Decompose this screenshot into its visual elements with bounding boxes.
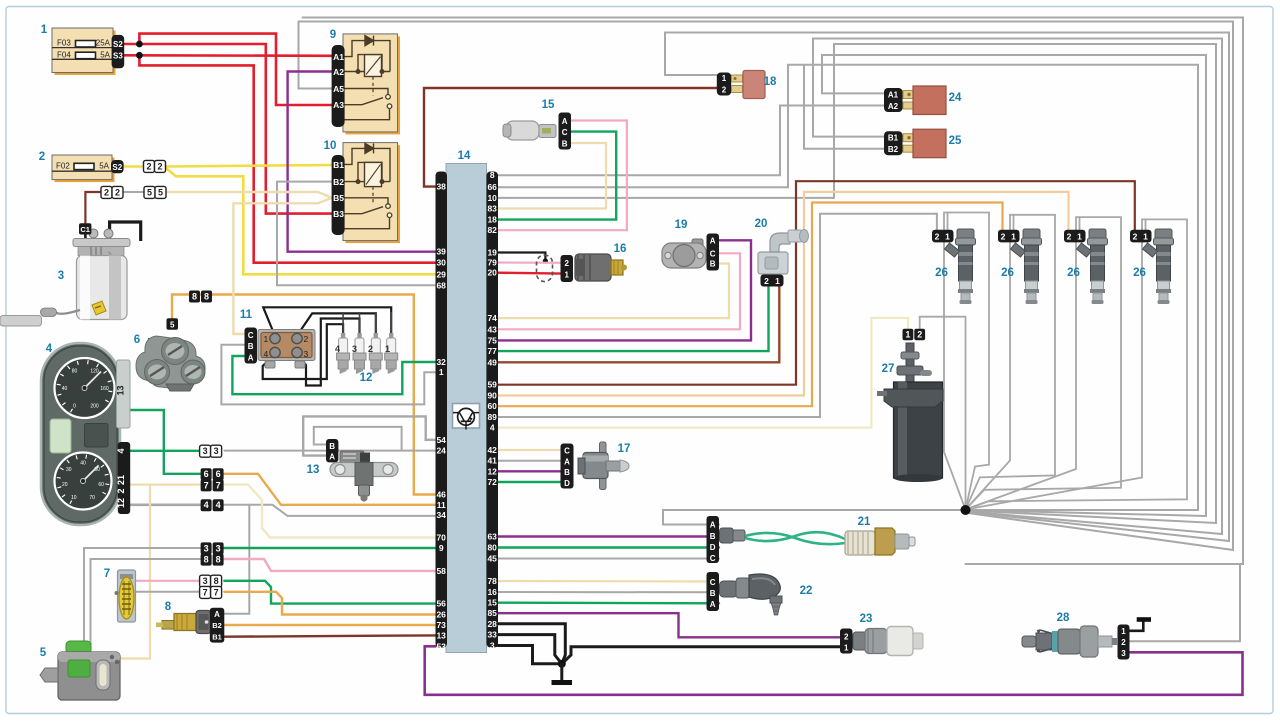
svg-text:10: 10 (324, 140, 337, 152)
wire cream ignition module pin C to relay 10 pin B5 (233, 198, 332, 334)
ignition module 11 body (258, 330, 315, 369)
svg-text:26: 26 (1067, 267, 1080, 279)
relay 9 body (343, 34, 400, 134)
oxygen sensor 21 body (845, 528, 915, 555)
svg-text:73: 73 (436, 620, 446, 630)
wire brown connector 2-2 to fuel pump C1 (85, 192, 101, 223)
wire gray between 2-2 and 5-5 connectors (124, 191, 145, 193)
svg-text:85: 85 (487, 608, 497, 618)
svg-text:8: 8 (192, 292, 197, 302)
svg-text:19: 19 (675, 219, 688, 231)
wire pink sensor 15 pin A to ECU pin 82 (497, 121, 627, 231)
svg-text:3: 3 (203, 446, 208, 456)
wire black ECU pin 3 to ground node (497, 646, 562, 664)
svg-text:60: 60 (487, 401, 497, 411)
wire black ECU pin 19 shield drain (497, 253, 546, 261)
svg-text:42: 42 (487, 445, 497, 455)
spark plug 3 (40, 71, 1174, 701)
wire gray injector 4 pin 1 stub (1145, 219, 1147, 231)
svg-text:2: 2 (844, 633, 849, 642)
cluster LCD green (50, 419, 71, 453)
wire gray relay 9 pin A5 loop to shield node (299, 22, 1234, 551)
svg-text:11: 11 (437, 500, 446, 510)
svg-text:3: 3 (352, 344, 357, 354)
knock sensor 19 body (662, 239, 706, 268)
svg-text:80: 80 (72, 369, 78, 375)
fuse box 2 details (52, 162, 112, 172)
svg-text:3: 3 (216, 543, 221, 553)
wire orange sensor 6 pin 5 via connector 8-8 to ECU pin 46 (172, 295, 436, 495)
svg-text:A: A (214, 610, 220, 619)
svg-text:2: 2 (39, 151, 45, 163)
svg-text:30: 30 (66, 467, 72, 473)
svg-text:5: 5 (147, 187, 152, 197)
ground node dot (558, 660, 566, 668)
svg-text:32: 32 (436, 357, 446, 367)
wire gray immobilizer 5 to connector 8-8 lower (91, 559, 201, 648)
svg-text:2: 2 (1067, 232, 1072, 242)
svg-text:27: 27 (882, 363, 895, 375)
svg-text:0: 0 (73, 403, 76, 409)
wire purple ECU pin 85 to connector 23 pin 2 (497, 613, 841, 637)
svg-text:79: 79 (487, 258, 497, 268)
svg-text:A: A (248, 354, 254, 363)
svg-text:8: 8 (165, 601, 172, 613)
svg-text:A3: A3 (333, 100, 344, 110)
wire green ignition module pin A to ECU pin 32 (232, 356, 435, 394)
svg-text:6: 6 (204, 469, 209, 479)
injector 26 #2 (998, 229, 1042, 304)
wire green ECU pin 15 to MAP sensor pin A (497, 602, 720, 605)
svg-text:7: 7 (216, 480, 221, 490)
sensor 16 body (575, 254, 627, 281)
svg-text:24: 24 (949, 92, 962, 104)
svg-text:1: 1 (775, 276, 780, 286)
immobilizer unit 5 (40, 641, 120, 700)
svg-text:B2: B2 (333, 177, 344, 187)
svg-text:S2: S2 (112, 163, 122, 172)
svg-text:6: 6 (216, 469, 221, 479)
svg-text:2: 2 (935, 232, 940, 242)
wire pink diagnostic 7 to connector 3-8 (135, 580, 201, 582)
svg-text:4: 4 (216, 500, 221, 510)
fuel pump module 3 (0, 229, 130, 326)
svg-text:5A: 5A (100, 50, 110, 59)
svg-text:12: 12 (116, 498, 126, 508)
wire brown ECU pin 59 to injector 4 (497, 181, 1135, 385)
wire cream ECU pin 78 to MAP sensor pin C (497, 580, 720, 583)
svg-text:68: 68 (436, 280, 446, 290)
svg-text:30: 30 (436, 258, 446, 268)
sensor 19 connector (707, 234, 720, 271)
svg-text:F04: F04 (57, 50, 71, 59)
svg-text:C: C (710, 578, 716, 587)
svg-text:66: 66 (487, 182, 497, 192)
svg-text:80: 80 (487, 543, 497, 553)
wire pink ECU pin 79 to sensor 16 pin 2 (497, 261, 562, 263)
wire gray ECU pin 10 to shield node (834, 44, 1216, 523)
wire yellow branch to ECU pin 29 (167, 169, 436, 274)
svg-text:77: 77 (487, 346, 497, 356)
svg-text:20: 20 (487, 268, 497, 278)
canister 27 connector (903, 329, 914, 341)
oxygen sensor 21 pigtail (720, 528, 846, 544)
svg-text:A: A (562, 117, 568, 126)
svg-text:1: 1 (264, 334, 269, 344)
wire green ECU pin 80 to oxygen sensor pin D (497, 546, 720, 548)
svg-text:63: 63 (487, 532, 497, 542)
wire cream ECU pin 42 to IAC pin C (497, 449, 562, 451)
sensor 23 connector (840, 629, 853, 654)
wire peach ECU pin 90 to injector 3 (497, 192, 1069, 396)
svg-text:4: 4 (116, 448, 126, 453)
wire black ground stem (560, 664, 563, 681)
svg-text:5A: 5A (99, 162, 109, 171)
svg-text:2: 2 (1133, 232, 1138, 242)
svg-text:5: 5 (40, 647, 47, 659)
svg-text:2: 2 (764, 276, 769, 286)
wire gray shield node to oxygen sensor 21 pin A (663, 510, 966, 525)
svg-text:6: 6 (134, 334, 140, 346)
wire purple relay 9 pin A2 to ECU pin 39 (288, 72, 436, 252)
wire gray ECU pin 16 to MAP sensor pin B (497, 591, 720, 593)
svg-text:72: 72 (487, 477, 497, 487)
wire gray ECU pin 41 to IAC pin A (497, 460, 562, 462)
svg-text:59: 59 (487, 380, 497, 390)
svg-text:2: 2 (1121, 638, 1126, 647)
diagnostic connector 7 (115, 570, 136, 622)
svg-text:24: 24 (436, 446, 446, 456)
svg-text:1: 1 (1121, 627, 1126, 636)
svg-text:49: 49 (487, 357, 497, 367)
svg-text:2: 2 (115, 187, 120, 197)
purge valve 20 body (758, 230, 809, 275)
crank position sensor 13 body (330, 451, 398, 502)
spark plug numbers (335, 344, 390, 354)
wire orange ECU pin 60 to injector 2 (497, 203, 1003, 407)
ECU right pin numbers (487, 170, 497, 650)
wire green sensor 15 pin C to ECU pin 18 (497, 132, 617, 220)
wire green cluster pin 13 to connector 6-6 (130, 410, 201, 474)
ground symbol speed sensor (1137, 617, 1151, 622)
svg-text:10: 10 (71, 495, 77, 501)
wire gray module 25 pin B1 to shield node (813, 39, 1222, 535)
svg-text:56: 56 (436, 599, 446, 609)
svg-text:16: 16 (487, 587, 497, 597)
svg-text:7: 7 (104, 568, 110, 580)
throttle position sensor 6 (136, 336, 205, 391)
svg-text:1: 1 (1011, 232, 1016, 242)
fuse box 2 body (52, 155, 115, 182)
svg-text:A: A (710, 237, 716, 246)
wire black speed sensor pin 1 to ground (1129, 621, 1143, 631)
svg-text:1: 1 (385, 344, 390, 354)
svg-text:C1: C1 (80, 225, 90, 234)
svg-text:70: 70 (436, 533, 446, 543)
svg-text:A2: A2 (888, 102, 899, 111)
wire black ECU pin 28 to ground node (497, 624, 566, 664)
svg-text:19: 19 (487, 248, 497, 258)
wire HV lead terminal 2 to spark plug 2 (297, 313, 376, 336)
wire purple sensor 19 pin A to ECU pin 75 (497, 240, 752, 340)
svg-text:1: 1 (945, 232, 950, 242)
speedometer gauge (55, 358, 115, 418)
svg-text:26: 26 (935, 267, 948, 279)
spark plug 1 (40, 71, 1174, 701)
IAC valve 17 connector (561, 444, 574, 489)
wire gray top bus 1 (relay 9 area to shield node) (303, 18, 1244, 565)
IAC valve 17 body (578, 442, 629, 490)
svg-text:25A: 25A (96, 39, 111, 48)
connector pair 3-8 7-7 (diagnostic) (200, 575, 211, 587)
injector 26 #1 (932, 229, 976, 304)
wire brown ECU pin 38 to module 18 pin 2 (424, 88, 717, 187)
svg-text:2: 2 (564, 259, 569, 268)
svg-text:160: 160 (100, 386, 109, 392)
svg-text:38: 38 (436, 182, 446, 192)
svg-text:200: 200 (90, 403, 99, 409)
wire orange connector 7 to ECU pin 26 (224, 592, 435, 615)
connector pair 8-8 black (189, 291, 200, 303)
svg-text:C: C (248, 331, 254, 340)
wire black C1 to pump (84, 235, 87, 244)
shield drain dot (543, 258, 548, 263)
wire purple ECU pin 12 to IAC pin B (497, 470, 562, 472)
svg-text:75: 75 (487, 335, 497, 345)
wire gray into module 24 pin A1 (822, 92, 884, 94)
svg-text:4: 4 (490, 423, 495, 433)
svg-text:B: B (564, 468, 570, 477)
svg-text:90: 90 (487, 391, 497, 401)
fuse box 1 connector S2 S3 (112, 35, 125, 68)
relay 9 connector strip (332, 45, 345, 127)
oxygen sensor 21 connector (707, 516, 720, 563)
svg-text:8: 8 (490, 170, 495, 180)
relay 9 internal circuit (344, 36, 390, 120)
svg-text:B: B (562, 139, 568, 148)
svg-text:26: 26 (436, 610, 446, 620)
svg-text:C: C (564, 447, 570, 456)
sensor 6 pin 5 label (167, 318, 179, 330)
svg-text:F02: F02 (56, 162, 70, 171)
svg-text:11: 11 (240, 309, 253, 321)
wire gray ECU pin 66 to shield node (497, 65, 1199, 510)
svg-text:17: 17 (618, 443, 631, 455)
wire cream connector 5-5 to relay 10 pin B5 (167, 192, 332, 198)
svg-text:7: 7 (214, 587, 219, 597)
ignition module 11 connector (245, 328, 258, 364)
wire green ECU pin 72 to IAC pin D (497, 481, 562, 483)
svg-text:1: 1 (722, 74, 727, 83)
ground symbol engine (552, 680, 573, 685)
svg-text:46: 46 (436, 490, 446, 500)
fuel pump C1 label (79, 223, 91, 234)
fuse box 2 connector S2 (111, 160, 124, 173)
svg-text:7: 7 (204, 480, 209, 490)
svg-text:39: 39 (436, 247, 446, 257)
speed sensor 28 body (1022, 626, 1118, 657)
wire gray diagnostic 7 to connector 7-7 (135, 591, 201, 593)
wire yellow connector to relay 10 pin B1 (167, 165, 333, 167)
svg-text:4: 4 (46, 343, 53, 355)
wire red fuse S3 to relay 9 pin A1 (124, 54, 332, 57)
svg-text:B3: B3 (333, 209, 344, 219)
svg-text:3: 3 (214, 446, 219, 456)
svg-text:F03: F03 (57, 39, 71, 48)
svg-text:5: 5 (158, 187, 163, 197)
ECU controller 14 body (446, 164, 487, 653)
wire black ECU pin 33 to ground node (497, 635, 562, 664)
svg-text:22: 22 (800, 585, 813, 597)
fuse box 1 details (52, 39, 113, 60)
connector pair 4-4 (201, 499, 212, 511)
wire gray crank sensor pin A to ECU pin 54 (303, 416, 435, 455)
module 25 (884, 131, 903, 155)
wire green cluster pin 4 to connector 3-3 (130, 450, 200, 452)
svg-text:20: 20 (62, 482, 68, 488)
wire yellow fuse 2 S2 to connector (124, 165, 143, 168)
wire gray ECU pin 89 to injector 1 (497, 214, 937, 417)
svg-text:13: 13 (436, 630, 446, 640)
wire red fuse S3 branch to ECU pin 30 (139, 55, 435, 262)
spark plug 2 (40, 71, 1174, 701)
svg-text:43: 43 (487, 324, 497, 334)
svg-text:8: 8 (214, 576, 219, 586)
wire gray ECU pin 8 to module 24 pin A2 (497, 106, 885, 176)
connector pair 3-3 8-8 lower (201, 542, 212, 554)
wire gray cluster pin 12 to connector 4-4 (124, 503, 201, 506)
injector 26 #4 (1130, 229, 1174, 304)
svg-text:78: 78 (487, 576, 497, 586)
junction dot fuse S3 (136, 52, 143, 59)
wire gray ECU pin 10 horizontal (497, 197, 835, 199)
wire gray canister 27 pin 2 to shield node (920, 317, 966, 510)
wire gray injector 2 pin 1 stub (1013, 215, 1015, 231)
svg-text:S3: S3 (113, 51, 123, 60)
ECU left pin numbers (436, 182, 446, 652)
wire pink sensor 19 pin C to ECU pin 43 (497, 253, 741, 329)
svg-text:2: 2 (116, 488, 126, 493)
svg-text:B: B (248, 342, 254, 351)
wire gray connector 4-4 to temp sensor 8 pin A (223, 505, 249, 614)
connector pair 3-3 (cluster) (200, 445, 211, 457)
svg-text:3: 3 (58, 270, 64, 282)
svg-text:1: 1 (905, 329, 910, 339)
wire HV lead terminal 3 to spark plug 3 (297, 319, 360, 386)
module 18 (717, 73, 731, 96)
wire gray into module 25 pin B1 (813, 136, 884, 138)
svg-text:12: 12 (487, 466, 497, 476)
svg-text:3: 3 (204, 543, 209, 553)
sensor 23 body (853, 627, 923, 656)
tachometer gauge (55, 453, 112, 510)
spark plug 4 (40, 71, 1174, 701)
wire black pump jumper (110, 222, 141, 241)
wire gray branch to speed sensor 28 pin 2 (1129, 564, 1240, 641)
svg-text:A1: A1 (333, 52, 344, 62)
svg-text:7: 7 (203, 587, 208, 597)
wire gray module 24 pin A1 to shield node (822, 55, 1206, 516)
wire gray ECU pin 45 to oxygen sensor pin C (497, 558, 720, 560)
svg-text:B: B (710, 532, 716, 541)
wire gray injector 1 shield rail loop to node (944, 213, 989, 510)
svg-text:B2: B2 (212, 621, 222, 630)
wire cream branch to immobilizer 5 (91, 485, 150, 659)
wire gray module 25 pin B2 riser (804, 65, 884, 149)
wire gray immobilizer 5 to connector 3-3 lower (84, 548, 201, 648)
svg-text:2: 2 (368, 344, 373, 354)
svg-text:C: C (710, 250, 716, 259)
svg-text:A1: A1 (888, 91, 899, 100)
svg-text:D: D (564, 479, 570, 488)
svg-text:A: A (564, 457, 570, 466)
svg-text:B: B (710, 260, 716, 269)
wire red fuse S2 to relay 10 pin B3 (124, 44, 332, 214)
relay 10 body (343, 143, 400, 244)
cluster connector tab 13 (117, 360, 131, 428)
connector pair 6-6 7-7 (201, 468, 212, 480)
svg-text:26: 26 (1133, 267, 1146, 279)
svg-text:A: A (710, 600, 716, 609)
svg-text:1: 1 (439, 367, 444, 377)
svg-text:2: 2 (1001, 232, 1006, 242)
svg-text:15: 15 (542, 99, 555, 111)
wire red fuse S2 branch to relay 9 pin A3 (139, 34, 332, 105)
svg-text:B2: B2 (888, 145, 899, 154)
svg-text:21: 21 (858, 516, 871, 528)
svg-text:2: 2 (722, 86, 727, 95)
sensor 16 connector (561, 255, 574, 282)
svg-text:1: 1 (1143, 232, 1148, 242)
svg-text:A5: A5 (333, 84, 344, 94)
wire pale connector 7-7 to ECU pin 70 (223, 485, 436, 538)
svg-text:14: 14 (458, 150, 471, 162)
svg-text:13: 13 (116, 385, 126, 395)
wire pale-yellow ECU pin 4 to canister 27 pin 1 (497, 318, 909, 428)
wire orange connector 6-6 to ECU pin 11 (223, 474, 436, 505)
svg-text:A: A (710, 521, 716, 530)
svg-text:74: 74 (487, 313, 497, 323)
svg-text:54: 54 (436, 435, 446, 445)
svg-text:41: 41 (487, 456, 497, 466)
module 24 (884, 88, 903, 112)
wire pink connector 8-8 to ECU pin 58 (223, 559, 436, 571)
svg-text:12: 12 (360, 372, 373, 384)
wire gray branch to ECU pin 34 (249, 505, 435, 516)
temp sensor 8 connector (210, 608, 225, 643)
wire gray module 18 pin 1 to shield node (665, 33, 1229, 542)
cluster LCD dark (85, 424, 109, 448)
svg-text:4: 4 (204, 500, 209, 510)
svg-text:23: 23 (860, 613, 873, 625)
screened cable symbol at sensor 16 (537, 255, 553, 282)
wire gray crank sensor pin B loop (314, 427, 402, 451)
svg-text:8: 8 (216, 555, 221, 565)
wire gray ignition module pin B to ECU pin 1 (221, 345, 435, 405)
svg-text:3: 3 (490, 641, 495, 651)
svg-text:3: 3 (304, 349, 309, 359)
ECU right pin strip (487, 172, 499, 648)
svg-text:25: 25 (949, 135, 962, 147)
svg-text:18: 18 (487, 215, 497, 225)
crank position sensor 13 connector (326, 439, 338, 462)
svg-text:60: 60 (98, 482, 104, 488)
ECU left pin strip (436, 172, 448, 648)
junction dot fuse S2 (136, 41, 143, 48)
svg-text:8: 8 (204, 555, 209, 565)
connector pair 2-2 (ignition feed) (144, 160, 155, 172)
svg-text:D: D (710, 543, 716, 552)
